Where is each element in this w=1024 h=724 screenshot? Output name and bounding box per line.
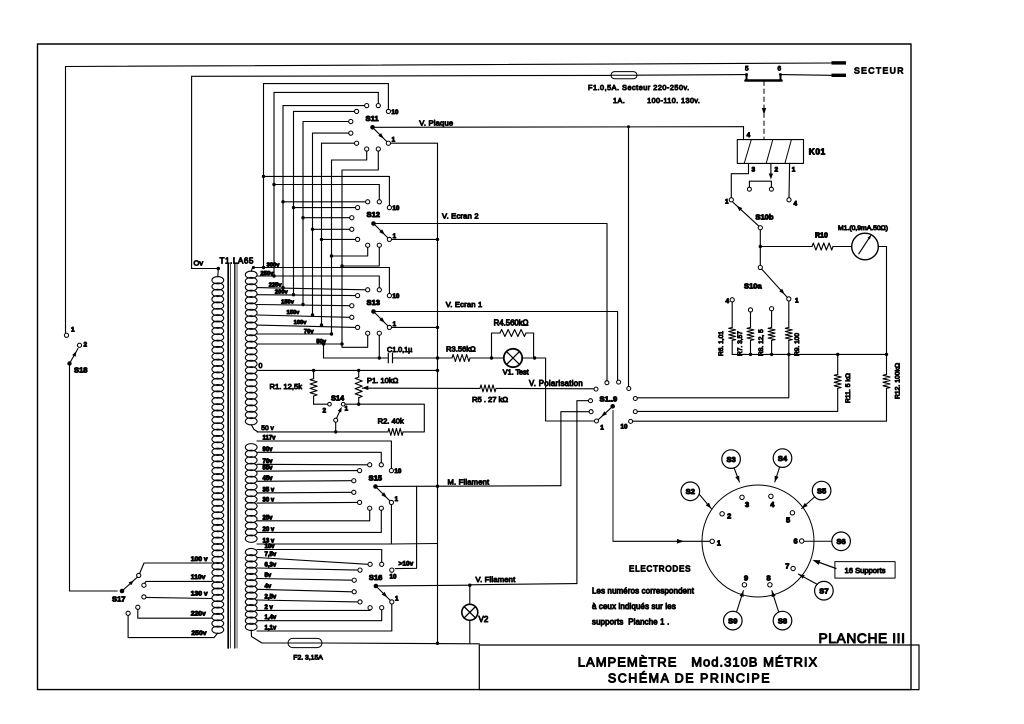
svg-text:10: 10 bbox=[390, 573, 397, 580]
svg-text:S2: S2 bbox=[686, 487, 695, 496]
svg-text:90v: 90v bbox=[263, 447, 274, 453]
svg-text:4: 4 bbox=[747, 132, 751, 139]
svg-text:2 v: 2 v bbox=[265, 605, 274, 611]
svg-text:1: 1 bbox=[792, 167, 796, 174]
svg-text:S9: S9 bbox=[728, 616, 737, 625]
svg-text:R5 . 27 kΩ: R5 . 27 kΩ bbox=[472, 395, 508, 404]
svg-text:M1.(0,9mA.50Ω): M1.(0,9mA.50Ω) bbox=[838, 225, 888, 232]
svg-text:R4.560kΩ: R4.560kΩ bbox=[494, 319, 529, 328]
svg-text:225v: 225v bbox=[269, 282, 283, 288]
svg-text:V. Polarisation: V. Polarisation bbox=[529, 379, 583, 388]
svg-text:1,4v: 1,4v bbox=[265, 615, 277, 621]
svg-text:R3.56kΩ: R3.56kΩ bbox=[446, 345, 476, 354]
svg-text:1: 1 bbox=[395, 595, 399, 602]
svg-text:T1.LA65: T1.LA65 bbox=[220, 257, 254, 266]
svg-text:S10a: S10a bbox=[744, 282, 763, 291]
svg-text:70v: 70v bbox=[304, 329, 314, 335]
svg-text:F2. 3,15A: F2. 3,15A bbox=[293, 655, 323, 662]
svg-text:25v: 25v bbox=[263, 515, 274, 521]
svg-text:3: 3 bbox=[752, 167, 756, 174]
svg-text:1A. 100-110. 130v.: 1A. 100-110. 130v. bbox=[613, 96, 700, 105]
svg-text:R8. 12, 5: R8. 12, 5 bbox=[758, 329, 765, 356]
svg-text:S5: S5 bbox=[817, 486, 827, 495]
svg-text:S8: S8 bbox=[778, 616, 787, 625]
svg-text:30 v: 30 v bbox=[263, 498, 275, 504]
svg-text:S17: S17 bbox=[112, 595, 126, 604]
svg-text:2: 2 bbox=[84, 342, 88, 349]
svg-text:70v: 70v bbox=[263, 459, 274, 465]
svg-text:10: 10 bbox=[394, 468, 401, 475]
svg-text:R1. 12,5k: R1. 12,5k bbox=[270, 382, 303, 391]
svg-text:S4: S4 bbox=[778, 454, 788, 463]
svg-text:50 v: 50 v bbox=[261, 425, 274, 432]
svg-text:10: 10 bbox=[391, 109, 398, 116]
svg-text:35 v: 35 v bbox=[263, 487, 275, 493]
svg-text:50v: 50v bbox=[316, 339, 326, 345]
svg-text:S18: S18 bbox=[74, 366, 88, 375]
svg-text:3: 3 bbox=[745, 500, 749, 509]
svg-text:R2. 40k: R2. 40k bbox=[378, 417, 404, 426]
svg-text:K01: K01 bbox=[809, 147, 826, 157]
svg-text:S11: S11 bbox=[366, 114, 380, 123]
svg-text:4: 4 bbox=[794, 201, 798, 208]
svg-text:V. Ecran 2: V. Ecran 2 bbox=[442, 212, 479, 221]
svg-text:1: 1 bbox=[725, 199, 729, 206]
svg-text:110v: 110v bbox=[191, 574, 206, 581]
svg-text:7,5v: 7,5v bbox=[265, 552, 277, 558]
svg-text:2,5v: 2,5v bbox=[265, 595, 277, 601]
svg-text:S10b: S10b bbox=[755, 213, 774, 222]
svg-text:150v: 150v bbox=[287, 310, 301, 316]
svg-text:supports Planche 1 .: supports Planche 1 . bbox=[592, 618, 669, 627]
svg-text:6: 6 bbox=[778, 66, 782, 73]
svg-text:PLANCHE III: PLANCHE III bbox=[818, 631, 905, 646]
svg-text:10: 10 bbox=[621, 424, 628, 431]
svg-text:R6. 1,01: R6. 1,01 bbox=[718, 331, 725, 356]
svg-text:S16: S16 bbox=[369, 573, 383, 582]
svg-text:2: 2 bbox=[775, 167, 779, 174]
svg-text:S6: S6 bbox=[836, 537, 845, 546]
svg-text:55v: 55v bbox=[263, 466, 274, 472]
svg-text:220v: 220v bbox=[191, 611, 206, 618]
svg-text:R12. 100kΩ: R12. 100kΩ bbox=[894, 363, 901, 399]
svg-text:4v: 4v bbox=[265, 584, 272, 590]
svg-text:Ov: Ov bbox=[194, 259, 204, 268]
svg-text:>10v: >10v bbox=[399, 560, 414, 567]
svg-text:2: 2 bbox=[323, 408, 327, 415]
svg-text:R7. 3,57: R7. 3,57 bbox=[737, 331, 744, 356]
svg-text:200v: 200v bbox=[275, 290, 289, 296]
svg-text:Les numéros correspondent: Les numéros correspondent bbox=[592, 587, 695, 596]
svg-text:V1. Test: V1. Test bbox=[503, 368, 529, 377]
svg-text:F1.0,5A. Secteur 220-250v.: F1.0,5A. Secteur 220-250v. bbox=[588, 83, 690, 92]
svg-text:S3: S3 bbox=[726, 455, 735, 464]
svg-text:ELECTRODES: ELECTRODES bbox=[629, 565, 691, 574]
svg-text:16 Supports: 16 Supports bbox=[845, 566, 886, 575]
svg-text:V. Filament: V. Filament bbox=[476, 575, 517, 584]
svg-text:à ceux indiqués sur les: à ceux indiqués sur les bbox=[592, 602, 676, 611]
svg-text:10: 10 bbox=[392, 293, 399, 300]
svg-text:V. Ecran 1: V. Ecran 1 bbox=[446, 300, 483, 309]
svg-text:S12: S12 bbox=[367, 210, 381, 219]
svg-text:V2: V2 bbox=[479, 615, 489, 624]
svg-text:250v: 250v bbox=[191, 630, 206, 637]
svg-text:130 v: 130 v bbox=[191, 590, 208, 597]
svg-text:1: 1 bbox=[395, 496, 399, 503]
svg-text:1: 1 bbox=[345, 406, 349, 413]
svg-text:45v: 45v bbox=[263, 476, 274, 482]
svg-text:5v: 5v bbox=[265, 573, 272, 579]
svg-text:R9. 100: R9. 100 bbox=[794, 333, 801, 356]
svg-text:LAMPEMÈTRE Mod.310B MÉTRIX: LAMPEMÈTRE Mod.310B MÉTRIX bbox=[578, 655, 818, 670]
svg-text:P1. 10kΩ: P1. 10kΩ bbox=[367, 376, 399, 385]
svg-text:R11. 5 kΩ: R11. 5 kΩ bbox=[845, 373, 852, 403]
svg-text:300v: 300v bbox=[267, 262, 281, 268]
svg-text:1,1v: 1,1v bbox=[265, 626, 277, 632]
svg-text:C1.0,1µ: C1.0,1µ bbox=[387, 345, 412, 354]
svg-text:250v: 250v bbox=[261, 271, 275, 277]
svg-text:7: 7 bbox=[785, 562, 789, 571]
svg-text:100 v: 100 v bbox=[191, 556, 208, 563]
svg-text:10: 10 bbox=[392, 205, 399, 212]
svg-text:S1..9: S1..9 bbox=[600, 394, 618, 403]
svg-text:5: 5 bbox=[786, 516, 790, 525]
svg-text:2: 2 bbox=[727, 512, 731, 521]
svg-text:R10: R10 bbox=[815, 233, 828, 240]
svg-text:150v: 150v bbox=[281, 299, 295, 305]
svg-text:S14: S14 bbox=[331, 393, 345, 402]
svg-text:6: 6 bbox=[794, 537, 798, 546]
svg-text:6,3v: 6,3v bbox=[265, 563, 277, 569]
svg-text:1: 1 bbox=[600, 425, 604, 432]
svg-text:8: 8 bbox=[767, 574, 771, 583]
svg-text:117v: 117v bbox=[263, 436, 277, 442]
svg-text:1: 1 bbox=[795, 297, 799, 304]
svg-text:0: 0 bbox=[259, 363, 263, 370]
svg-text:S7: S7 bbox=[819, 587, 828, 596]
svg-text:5: 5 bbox=[745, 66, 749, 73]
svg-text:SCHÉMA DE PRINCIPE: SCHÉMA DE PRINCIPE bbox=[608, 671, 771, 686]
svg-text:1: 1 bbox=[717, 539, 721, 548]
svg-text:1: 1 bbox=[71, 327, 75, 334]
svg-text:M. Filament: M. Filament bbox=[448, 477, 491, 486]
svg-text:S13: S13 bbox=[367, 298, 381, 307]
svg-text:V. Plaque: V. Plaque bbox=[419, 118, 453, 127]
svg-text:9: 9 bbox=[744, 574, 748, 583]
svg-text:20 v: 20 v bbox=[263, 527, 275, 533]
svg-text:100v: 100v bbox=[294, 320, 308, 326]
svg-text:SECTEUR: SECTEUR bbox=[854, 65, 905, 75]
svg-text:10v: 10v bbox=[265, 544, 276, 550]
svg-text:4: 4 bbox=[726, 298, 730, 305]
svg-text:S15: S15 bbox=[369, 473, 383, 482]
